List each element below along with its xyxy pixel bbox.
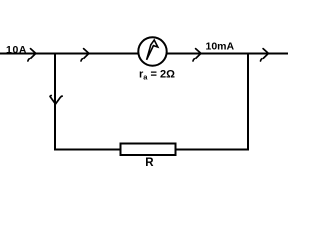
wire: top left segment (input to galvanometer)	[0, 53, 138, 55]
current arrow on output wire	[261, 49, 269, 61]
galvanometer needle	[147, 40, 158, 60]
current arrow on input wire	[28, 49, 36, 61]
wire: top right segment (galvanometer to output)	[167, 53, 288, 55]
galvanometer G circle	[138, 37, 166, 65]
svg-text:10mA: 10mA	[206, 41, 235, 53]
wire: bottom right segment	[176, 149, 249, 151]
svg-text:R: R	[145, 157, 154, 169]
svg-text:ra = 2Ω: ra = 2Ω	[139, 69, 175, 82]
svg-text:10A: 10A	[6, 44, 27, 56]
resistor R body	[121, 144, 176, 156]
wire: bottom left segment	[54, 149, 120, 151]
wire: left vertical branch	[54, 53, 56, 151]
current arrow down left branch	[50, 96, 62, 105]
wire: right vertical branch	[247, 53, 249, 151]
current arrow before galvanometer	[81, 49, 89, 61]
current arrow after galvanometer	[193, 49, 201, 61]
